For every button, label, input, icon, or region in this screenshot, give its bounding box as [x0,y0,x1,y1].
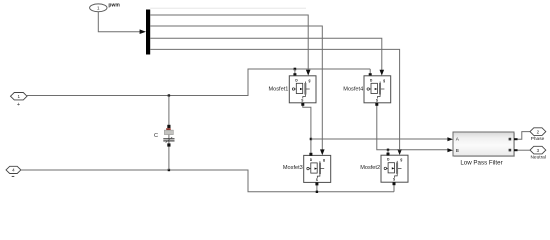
node drain tap M1 [294,68,297,71]
svg-text:pwm: pwm [108,2,120,8]
node B junction [387,149,389,151]
svg-text:Phase: Phase [531,136,545,142]
gate arrow M2 [397,149,402,155]
node cap top tap [168,94,170,96]
svg-text:B: B [456,148,459,153]
svg-text:+: + [17,102,20,108]
wire M4 source to node B [377,103,448,150]
wire rail A to filter [311,138,448,140]
svg-text:Neutral: Neutral [530,154,545,160]
node M3 - rail junction [316,191,318,193]
wire filter to Neutral [518,149,530,151]
wire ghost artifact [150,7,306,9]
svg-text:C: C [154,133,158,139]
wire demux out 3 [150,38,382,70]
low pass filter block [453,132,518,166]
outport 3 Neutral [530,146,546,160]
mosfet U4 block [364,76,391,103]
mosfet U3 block [304,155,331,182]
wire demux out 4 [150,49,399,149]
port 4 (- DC input) [6,166,21,176]
demux [146,10,150,55]
wire M1 source to node A [303,103,311,154]
wire node B to M2 drain [387,150,389,154]
svg-text:Low Pass Filter: Low Pass Filter [460,159,502,166]
wire filter to Phase [518,132,530,140]
wire M2 source to - rail [393,183,395,192]
mosfet U1 block [289,76,316,103]
svg-text:S: S [376,98,378,102]
wire + rail [27,69,370,96]
port 1 (+ DC input) [11,93,28,109]
svg-text:Mosfet1: Mosfet1 [268,86,288,92]
wire drain drop M4 [369,69,371,74]
wire demux out 2 [150,26,322,150]
wire demux out 1 [150,15,308,70]
wire - rail [21,170,394,192]
svg-text:Mosfet3: Mosfet3 [283,165,303,171]
wire pwm to demux [98,12,140,32]
svg-text:g: g [323,158,325,162]
node cap bottom tap [168,169,170,171]
svg-text:g: g [400,158,402,162]
gate arrow M3 [320,149,325,155]
node A junction [310,138,312,140]
svg-text:g: g [309,78,311,82]
wire M3 source to - rail [316,183,318,192]
svg-text:g: g [383,78,385,82]
svg-text:Mosfet2: Mosfet2 [360,165,380,171]
svg-text:S: S [316,178,318,182]
mosfet U2 block [381,155,408,182]
wire drain drop M1 [294,69,296,74]
svg-text:S: S [393,178,395,182]
svg-text:Mosfet4: Mosfet4 [343,86,363,92]
capacitor C [154,96,174,171]
gate arrow M4 [380,70,385,76]
outport 2 Phase [530,128,546,142]
svg-text:S: S [301,98,303,102]
gate arrow M1 [306,70,311,76]
inport 1 pwm [90,2,121,11]
